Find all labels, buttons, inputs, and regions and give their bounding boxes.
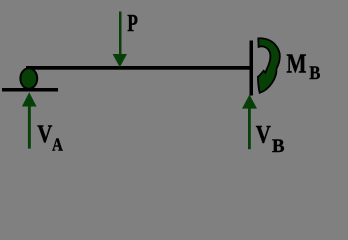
- moment M_B curved arrow: [258, 38, 280, 93]
- pin circle at A: [20, 68, 37, 89]
- reaction V_B arrow: [242, 95, 257, 150]
- svg-text:B: B: [309, 62, 320, 83]
- svg-text:V: V: [37, 120, 52, 147]
- svg-text:P: P: [127, 9, 138, 36]
- svg-text:V: V: [256, 121, 271, 148]
- force P arrow: [113, 12, 127, 68]
- ground line at A: [2, 88, 58, 92]
- reaction V_A arrow: [22, 92, 37, 148]
- svg-text:A: A: [52, 134, 63, 154]
- svg-text:B: B: [272, 136, 285, 157]
- beam: [26, 66, 253, 70]
- wall (fixed support at B): [250, 41, 254, 96]
- svg-text:M: M: [286, 49, 306, 79]
